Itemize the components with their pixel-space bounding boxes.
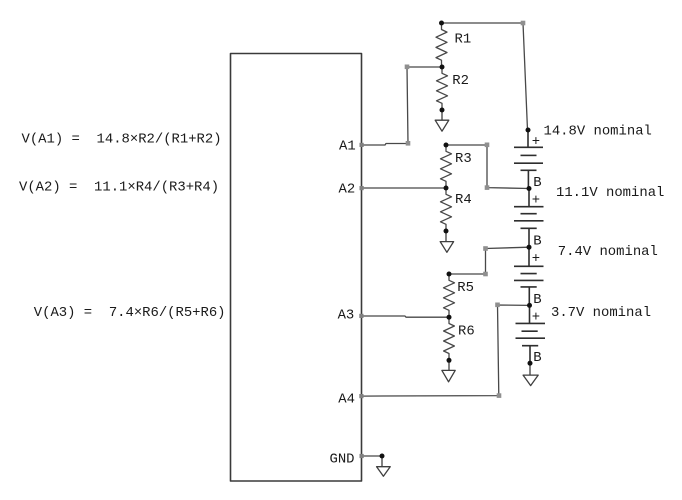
ground symbol at GND pin [377, 456, 391, 476]
ground symbol below battery B4 [523, 363, 538, 385]
junction dots [380, 21, 533, 459]
ground symbol below R6 [442, 360, 455, 382]
battery B1 14.8V [514, 130, 543, 189]
wire corner node, net 3.7V upper [495, 303, 500, 308]
wire corner handles (gray squares) [405, 21, 526, 398]
node R4 bottom [444, 229, 449, 234]
wire net A2: pin A2 to R3/R4 junction [362, 187, 447, 189]
node battery B4 - terminal [528, 361, 533, 366]
wire net A3: pin A3 to R5/R6 junction [362, 316, 450, 317]
node R3 top [444, 143, 449, 148]
wire net 7.4V: R5 top to battery B2/B3 junction [449, 247, 529, 274]
svg-text:+: + [532, 134, 540, 150]
pin A3 [359, 314, 363, 318]
svg-text:V(A1) = 14.8×R2/(R1+R2): V(A1) = 14.8×R2/(R1+R2) [22, 132, 222, 148]
svg-text:R1: R1 [455, 32, 472, 48]
wire corner node, net 14.8V [521, 21, 526, 26]
svg-text:R5: R5 [457, 280, 474, 296]
svg-text:R6: R6 [458, 323, 475, 339]
resistor R2 [437, 67, 448, 110]
ground symbol below R4 [440, 231, 453, 252]
svg-text:R4: R4 [455, 192, 472, 208]
wire net GND: pin GND to ground symbol [362, 455, 383, 457]
svg-text:V(A2) = 11.1×R4/(R3+R4): V(A2) = 11.1×R4/(R3+R4) [19, 180, 219, 196]
wire corner node, net A1 upper [405, 65, 410, 70]
svg-text:B: B [533, 233, 541, 249]
node battery B2/B3 junction [527, 245, 532, 250]
svg-text:A1: A1 [339, 139, 356, 155]
svg-text:11.1V nominal: 11.1V nominal [556, 185, 664, 201]
svg-text:+: + [532, 193, 540, 209]
battery B2 11.1V [514, 189, 544, 248]
wire net 11.1V: R3 top to battery B1/B2 junction [446, 145, 529, 189]
node battery B1/B2 junction [527, 186, 532, 191]
svg-text:+: + [532, 309, 540, 325]
node R5/R6 junction (A3 tap) [447, 315, 452, 320]
svg-text:7.4V nominal: 7.4V nominal [558, 244, 658, 260]
resistor R4 [441, 188, 452, 231]
svg-text:B: B [533, 350, 541, 366]
node GND stub [380, 454, 385, 459]
resistor R6 [444, 317, 455, 360]
svg-text:A2: A2 [339, 181, 356, 197]
resistor R1 [436, 23, 447, 67]
wire net A1: R1/R2 junction to pin A1 [362, 67, 443, 145]
pin GND [360, 454, 364, 458]
svg-text:R2: R2 [452, 73, 469, 89]
node battery B1 + terminal [526, 128, 531, 133]
node battery B3/B4 junction [527, 303, 532, 308]
svg-text:14.8V nominal: 14.8V nominal [544, 123, 652, 139]
node R1/R2 junction (A1 tap) [440, 65, 445, 70]
svg-text:B: B [533, 292, 541, 308]
ground symbol below R2 [435, 110, 449, 131]
battery B4 3.7V [516, 305, 546, 363]
node R6 bottom [447, 358, 452, 363]
svg-text:B: B [533, 175, 541, 191]
node R3/R4 junction (A2 tap) [444, 186, 449, 191]
svg-text:A4: A4 [338, 391, 355, 407]
svg-text:R3: R3 [455, 151, 472, 167]
IC body U1 (ADC block) [231, 54, 362, 482]
wire net 14.8V: battery B1 top to R1 top [442, 23, 528, 130]
node R2 bottom [440, 108, 445, 113]
pin A4 [359, 394, 363, 398]
battery B3 7.4V [514, 247, 544, 305]
resistor R3 [441, 145, 452, 188]
svg-text:3.7V nominal: 3.7V nominal [551, 305, 651, 321]
svg-text:A3: A3 [338, 307, 355, 323]
wire corner node, net A1 lower [406, 141, 411, 146]
pin A2 [360, 186, 364, 190]
wire corner node, net 11.1V lower [485, 185, 490, 190]
wire corner node, net 11.1V upper [485, 143, 490, 148]
wire net 3.7V: battery B3/B4 junction to pin A4 [362, 305, 530, 396]
node R1 top [439, 21, 444, 26]
resistor R5 [444, 274, 455, 317]
svg-text:GND: GND [330, 452, 355, 468]
wire corner node, net 3.7V lower (A4) [497, 393, 502, 398]
pin A1 [360, 143, 364, 147]
wire corner node, net 7.4V upper [483, 246, 488, 251]
svg-text:V(A3) = 7.4×R6/(R5+R6): V(A3) = 7.4×R6/(R5+R6) [34, 305, 226, 321]
svg-text:+: + [532, 251, 540, 267]
node R5 top [447, 272, 452, 277]
wire corner node, net 7.4V lower [483, 272, 488, 277]
pin squares on IC edge [359, 143, 363, 458]
